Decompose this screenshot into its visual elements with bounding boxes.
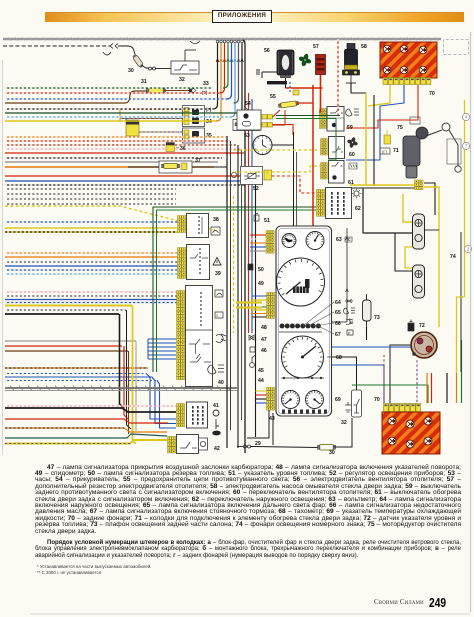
svg-text:73: 73 xyxy=(374,315,380,321)
svg-text:42: 42 xyxy=(214,446,220,452)
svg-text:37: 37 xyxy=(195,158,201,164)
svg-text:31: 31 xyxy=(141,79,147,85)
svg-text:30: 30 xyxy=(128,68,134,74)
svg-text:32: 32 xyxy=(341,420,347,426)
svg-text:47: 47 xyxy=(261,337,267,343)
svg-text:≡: ≡ xyxy=(216,313,219,318)
svg-text:50: 50 xyxy=(258,267,264,273)
svg-text:65: 65 xyxy=(335,310,341,316)
svg-text:62: 62 xyxy=(355,206,361,212)
svg-text:69: 69 xyxy=(335,397,341,403)
svg-text:34: 34 xyxy=(206,119,212,125)
svg-text:46: 46 xyxy=(261,348,267,354)
svg-text:41: 41 xyxy=(213,403,219,409)
svg-text:55: 55 xyxy=(270,94,276,100)
svg-text:33: 33 xyxy=(203,81,209,87)
svg-text:53: 53 xyxy=(244,133,250,139)
svg-text:74: 74 xyxy=(450,254,456,260)
svg-text:45: 45 xyxy=(258,368,264,374)
svg-text:64: 64 xyxy=(335,300,341,306)
svg-text:(Г): (Г) xyxy=(382,149,387,154)
svg-text:75: 75 xyxy=(397,125,403,131)
svg-text:70: 70 xyxy=(374,397,380,403)
svg-text:52: 52 xyxy=(253,186,259,192)
svg-text:40: 40 xyxy=(218,380,224,386)
svg-text:60: 60 xyxy=(349,152,355,158)
svg-text:72: 72 xyxy=(419,323,425,329)
svg-text:56: 56 xyxy=(264,48,270,54)
svg-text:43: 43 xyxy=(269,416,275,422)
svg-text:49: 49 xyxy=(258,281,264,287)
svg-text:57: 57 xyxy=(313,44,319,50)
svg-text:67: 67 xyxy=(335,332,341,338)
svg-text:54: 54 xyxy=(245,101,251,107)
svg-text:38: 38 xyxy=(213,217,219,223)
svg-text:36: 36 xyxy=(180,146,186,152)
svg-text:63: 63 xyxy=(336,237,342,243)
svg-text:32: 32 xyxy=(179,77,185,83)
svg-text:68: 68 xyxy=(336,355,342,361)
svg-text:35: 35 xyxy=(206,133,212,139)
svg-text:58: 58 xyxy=(361,44,367,50)
svg-text:39: 39 xyxy=(215,271,221,277)
svg-text:48: 48 xyxy=(261,325,267,331)
svg-text:71: 71 xyxy=(393,148,399,154)
svg-text:51: 51 xyxy=(264,218,270,224)
svg-text:70: 70 xyxy=(429,91,435,97)
svg-text:44: 44 xyxy=(258,378,264,384)
svg-text:30: 30 xyxy=(329,450,335,456)
